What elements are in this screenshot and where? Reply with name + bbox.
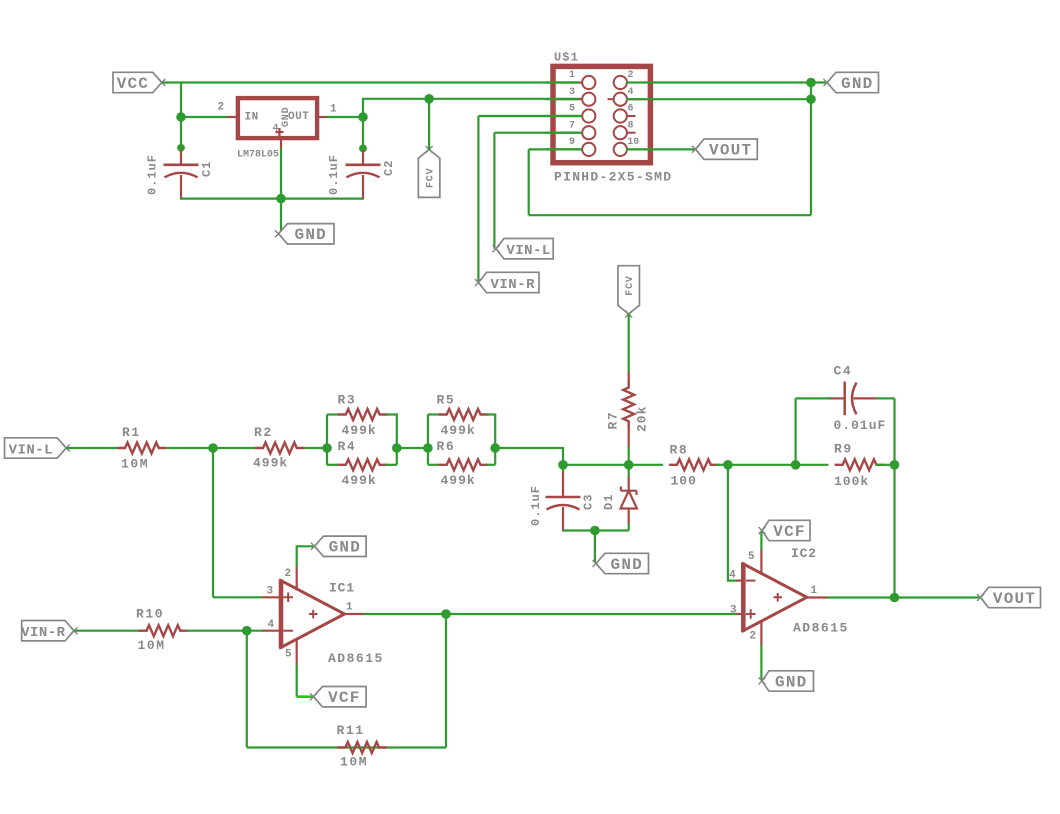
pin IC2 out stub (806, 596, 828, 598)
resistor R9 (835, 459, 885, 470)
wire VCC rail to connector pin1 (162, 81, 582, 83)
wire R3R4 left bracket (326, 415, 328, 465)
resistor R11 (337, 742, 387, 753)
wire IC1 V+ up (297, 546, 315, 567)
diode D1 top lead (628, 477, 630, 492)
junction C4 left (791, 460, 801, 470)
wire ground rail (180, 198, 363, 200)
flag GND regulator (279, 224, 335, 244)
wire VCF rail to connector pin3 (362, 98, 582, 100)
IC2 minus mark in (746, 580, 756, 582)
svg-text:5: 5 (285, 649, 292, 661)
junction node in-L (208, 443, 218, 453)
svg-text:VCF: VCF (773, 523, 805, 541)
connector pin4 left tick (608, 98, 614, 100)
svg-text:R1: R1 (122, 425, 141, 440)
wire gnd riser (810, 83, 812, 216)
wire VIN-R to R10 (74, 630, 148, 632)
svg-text:2: 2 (218, 102, 225, 114)
svg-text:6: 6 (628, 104, 634, 115)
capacitor C4 right lead (854, 397, 878, 399)
connector U$1 body (553, 66, 650, 162)
wire C4 left link (796, 397, 832, 399)
svg-text:20k: 20k (635, 406, 650, 432)
wire OUT riser (362, 99, 364, 118)
wire pin7 left (494, 132, 582, 134)
junction C1 top (177, 144, 185, 152)
flag VCF above R7 (618, 266, 640, 314)
wire pin4 to gnd riser (626, 98, 811, 100)
svg-text:R10: R10 (136, 607, 164, 622)
wire node in-L drop (212, 448, 214, 597)
svg-text:VIN-L: VIN-L (506, 243, 551, 259)
junction OUT/C2 (358, 112, 368, 122)
wire R4 right link (386, 464, 397, 466)
capacitor C1 (164, 164, 199, 167)
wire gnd loop riser (528, 149, 530, 215)
svg-text:3: 3 (267, 586, 274, 598)
svg-text:5: 5 (569, 104, 575, 115)
junction IC1 out (441, 609, 451, 619)
svg-text:3: 3 (569, 87, 575, 98)
wire regulator gnd drop (280, 149, 282, 199)
flag VCC (113, 72, 162, 92)
svg-text:VCC: VCC (117, 75, 149, 93)
wire C4 right riser (893, 398, 895, 464)
svg-text:IC2: IC2 (791, 546, 817, 561)
svg-text:100k: 100k (834, 474, 869, 489)
wire feedback drop (893, 465, 895, 598)
svg-text:VIN-R: VIN-R (490, 277, 535, 293)
flag VIN-L top (496, 239, 553, 259)
resistor R10 (139, 625, 189, 636)
wire pin9 to gnd loop (529, 148, 582, 150)
svg-text:3: 3 (730, 605, 737, 617)
pin IC1 -in stub (262, 630, 282, 632)
wire R5R6 left bracket (427, 415, 429, 465)
svg-text:R4: R4 (338, 439, 357, 454)
wire inv drop (728, 465, 738, 581)
junction R3R4 right (392, 443, 402, 453)
svg-text:2: 2 (285, 568, 292, 580)
svg-text:GND: GND (295, 226, 327, 244)
svg-text:IC1: IC1 (329, 581, 355, 596)
wire to IN pin (181, 116, 228, 118)
svg-text:4: 4 (628, 87, 634, 98)
wire IC2 out to VOUT (827, 596, 981, 598)
svg-text:0.01uF: 0.01uF (834, 418, 887, 433)
wire pin5 left (478, 115, 582, 117)
svg-text:5: 5 (748, 551, 755, 563)
wire R4 left link (327, 464, 340, 466)
wire gnd loop bottom (529, 214, 811, 216)
svg-text:1: 1 (346, 602, 353, 614)
wire C4 node to R9 (796, 464, 829, 466)
wire node X to D1 node (563, 464, 629, 466)
svg-text:2: 2 (628, 70, 634, 81)
voltage regulator IC3 LM78L05 body (238, 98, 317, 138)
svg-text:499k: 499k (253, 456, 288, 471)
svg-text:10M: 10M (121, 457, 149, 472)
pin IC1 out stub (343, 613, 364, 615)
wire C1 branch (180, 115, 182, 152)
wire feedback bottom (247, 746, 446, 748)
svg-text:10M: 10M (138, 638, 166, 653)
wire pin10 to VOUT (626, 148, 696, 150)
wire gnd mid drop (594, 531, 596, 564)
flag VOUT (981, 587, 1041, 607)
svg-text:C4: C4 (834, 364, 853, 379)
wire ladder to node X (495, 448, 563, 465)
wire feedback riser left (246, 631, 248, 748)
resistor R4 (338, 459, 388, 470)
wire VCF flag drop (428, 99, 430, 150)
svg-text:0.1uF: 0.1uF (146, 154, 160, 195)
diode D1 bottom lead (628, 509, 630, 525)
connector pin stubs (553, 82, 582, 84)
svg-text:4: 4 (729, 570, 736, 582)
wire to IC1 +in (213, 596, 263, 598)
wire IC1 out to IC2 +in (364, 613, 738, 615)
junction R3R4 left (322, 443, 332, 453)
junction IC1 inv node (242, 626, 252, 636)
regulator gnd pin cross (276, 128, 284, 136)
capacitor C3 bottom lead (562, 507, 564, 532)
resistor R2 (255, 443, 305, 454)
flag GND mid (596, 553, 649, 573)
wire R6 right link (487, 464, 496, 466)
wire feedback drop left (445, 614, 447, 748)
wire pin7 drop to VIN-L (493, 133, 495, 249)
wire R5 right link (487, 415, 496, 465)
svg-text:AD8615: AD8615 (328, 651, 384, 666)
svg-text:0.1uF: 0.1uF (327, 154, 341, 195)
flag GND top right (827, 72, 879, 92)
op-amp IC2 AD8615 (743, 564, 807, 631)
svg-text:R5: R5 (437, 393, 456, 408)
junction C2 top (359, 145, 367, 153)
resistor R7 top lead (628, 372, 630, 381)
svg-text:C2: C2 (382, 160, 396, 176)
wire VCC drop to IC3 IN (180, 83, 182, 118)
capacitor C4 left lead (831, 397, 845, 399)
resistor R3 (338, 409, 388, 420)
IC1 plus mark supply (309, 610, 318, 619)
svg-text:R8: R8 (670, 443, 689, 458)
svg-text:GND: GND (611, 556, 643, 574)
junction gnd pin2 (806, 78, 816, 88)
wire D1 node to R8 (629, 464, 663, 466)
diode D1 zener (621, 487, 637, 509)
svg-text:10: 10 (627, 137, 639, 148)
wire R6 left link (428, 464, 441, 466)
flag VIN-R top (478, 272, 539, 292)
svg-text:GND: GND (775, 673, 807, 691)
wire IC2 V+ up (760, 531, 762, 550)
pin OUT stub IC3 (318, 116, 329, 118)
flag GND IC1 (315, 536, 367, 556)
svg-text:499k: 499k (441, 473, 476, 488)
svg-text:4: 4 (268, 619, 275, 631)
wire R10 to IC1 -in (187, 630, 263, 632)
connector pads (582, 76, 595, 89)
wire R3 top link (327, 413, 340, 415)
svg-text:499k: 499k (441, 423, 476, 438)
svg-text:C3: C3 (582, 494, 596, 510)
svg-text:GND: GND (281, 107, 292, 127)
capacitor C2 bottom lead (362, 175, 364, 200)
wire gnd rail mid (563, 529, 629, 531)
svg-text:2: 2 (750, 631, 757, 643)
capacitor C4 (845, 382, 857, 416)
wire R5 top link (428, 413, 441, 415)
flag VCF vertical (418, 150, 440, 198)
junction gnd rail (276, 194, 286, 204)
svg-text:VOUT: VOUT (993, 590, 1036, 608)
svg-text:1: 1 (330, 104, 337, 116)
svg-text:C1: C1 (200, 161, 214, 177)
wire pin5 drop to VIN-R (477, 116, 479, 283)
junction gnd pin4 (806, 94, 816, 104)
regulator GND pin stub (280, 140, 282, 150)
svg-text:100: 100 (671, 474, 697, 489)
flag VOUT top (696, 139, 758, 159)
pin IC1 V+ stub (296, 566, 298, 591)
resistor R1 (117, 443, 167, 454)
junction VCF rail (424, 94, 434, 104)
svg-text:AD8615: AD8615 (793, 621, 849, 636)
svg-text:1: 1 (811, 585, 818, 597)
wire IC2 V- down (760, 645, 762, 681)
wire R1 to R2 (167, 447, 262, 449)
wire gnd rail to flag (280, 199, 282, 234)
junction IC2 inv node (723, 460, 733, 470)
svg-text:8: 8 (628, 120, 634, 131)
svg-text:PINHD-2X5-SMD: PINHD-2X5-SMD (554, 170, 672, 185)
svg-text:R2: R2 (254, 425, 273, 440)
wire D1 to gnd rail (628, 523, 630, 531)
IC2 plus mark supply (774, 593, 783, 602)
junction D1 node (624, 460, 634, 470)
capacitor C1 bottom lead (180, 175, 182, 200)
svg-text:0.1uF: 0.1uF (529, 485, 543, 526)
wire VCF to R7 (628, 313, 630, 373)
junction R5R6 right (490, 443, 500, 453)
svg-text:10M: 10M (340, 755, 368, 770)
flag GND IC2 (762, 671, 814, 691)
svg-text:GND: GND (841, 75, 873, 93)
pin IC2 V- stub (760, 621, 762, 646)
flag VCF IC1 (314, 687, 367, 707)
svg-text:LM78L05: LM78L05 (237, 150, 279, 161)
resistor R6 (439, 459, 489, 470)
resistor R7 (623, 380, 634, 430)
svg-text:1: 1 (569, 70, 575, 81)
svg-text:R7: R7 (606, 411, 621, 430)
svg-text:FCV: FCV (625, 275, 636, 295)
wire VIN-L to R1 (66, 447, 125, 449)
pin IC1 +in stub (262, 596, 282, 598)
svg-text:VIN-L: VIN-L (9, 442, 54, 458)
capacitor C3 top lead (562, 472, 564, 498)
svg-text:GND: GND (329, 539, 361, 557)
wire R9 to out node (876, 464, 895, 466)
junction VOUT node (890, 593, 900, 603)
wire R8 to IC2 node (716, 464, 796, 466)
pin IC2 V+ stub (760, 549, 762, 574)
svg-text:R9: R9 (834, 442, 853, 457)
svg-text:499k: 499k (342, 423, 377, 438)
junction node X (558, 460, 568, 470)
wire IC1 V- to VCF bright (297, 695, 314, 698)
svg-text:U$1: U$1 (554, 51, 579, 65)
IC1 minus mark in (284, 630, 294, 632)
svg-text:7: 7 (569, 120, 575, 131)
junction R9 right (890, 460, 900, 470)
capacitor C2 top lead (362, 150, 364, 165)
pin IN stub IC3 (227, 116, 237, 118)
capacitor C3 (546, 496, 581, 499)
resistor R5 (439, 409, 489, 420)
svg-text:499k: 499k (342, 473, 377, 488)
IC1 plus mark in (284, 593, 294, 603)
wire R3R4 to R5R6 (397, 447, 428, 449)
svg-text:9: 9 (569, 137, 575, 148)
wire IC1 V- down (296, 665, 298, 697)
pin IC2 -in stub (737, 579, 744, 581)
wire R2 to R3R4 (305, 447, 327, 449)
wire D1 top link (628, 465, 630, 479)
wire OUT to C2 node (327, 116, 363, 118)
wire R7 to node (628, 446, 630, 465)
svg-text:IN: IN (245, 112, 259, 124)
capacitor C1 top lead (180, 150, 182, 165)
resistor R7 bottom lead (628, 428, 630, 448)
svg-text:R3: R3 (338, 393, 357, 408)
svg-text:VIN-R: VIN-R (21, 625, 66, 641)
svg-text:VCF: VCF (328, 689, 360, 707)
svg-text:FCV: FCV (426, 168, 437, 188)
wire R3 right link (386, 415, 397, 465)
flag VIN-L (5, 438, 67, 458)
flag VCF IC2 (762, 520, 810, 540)
resistor R8 (669, 459, 719, 470)
flag VIN-R (22, 621, 74, 641)
svg-text:D1: D1 (602, 494, 616, 510)
wire pin2 to GND flag (626, 81, 827, 83)
wire C4 left riser (794, 398, 796, 464)
wire segments into connector pins (545, 81, 579, 83)
capacitor C2 (346, 164, 381, 167)
wire node X to C3 (562, 465, 564, 473)
svg-text:R11: R11 (337, 723, 365, 738)
pin IC2 +in stub (737, 613, 744, 615)
wire C2 branch (362, 117, 364, 152)
wire C4 right link (877, 397, 895, 399)
op-amp IC1 AD8615 (281, 581, 345, 648)
svg-text:R6: R6 (437, 439, 456, 454)
junction gnd mid (590, 526, 600, 536)
junction C1/IN (176, 112, 186, 122)
junction R5R6 left (423, 443, 433, 453)
pin IC1 V- stub (296, 639, 298, 666)
svg-text:VOUT: VOUT (709, 142, 752, 160)
IC2 plus mark in (746, 609, 756, 619)
